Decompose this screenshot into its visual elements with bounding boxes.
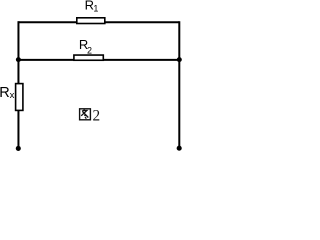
resistor Rx — [16, 84, 23, 111]
node terminal bottom-right — [177, 146, 182, 151]
wire top-left horizontal segment — [18, 21, 76, 23]
caption figure glyph 图 — [80, 109, 91, 120]
svg-text:R: R — [0, 85, 10, 101]
svg-text:2: 2 — [87, 45, 92, 55]
resistor R1 — [77, 18, 105, 24]
wire right vertical segment — [178, 21, 180, 148]
svg-text:2: 2 — [93, 108, 101, 125]
wire R2 branch left segment — [18, 59, 73, 61]
wire left vertical lower segment — [17, 110, 19, 148]
wire R2 branch right segment — [103, 59, 179, 61]
wire left vertical upper segment — [17, 21, 19, 83]
node junction left (R2 tap) — [16, 57, 21, 62]
wire top-right horizontal segment — [105, 21, 180, 23]
resistor R2 — [74, 55, 103, 60]
svg-text:1: 1 — [93, 4, 98, 14]
svg-text:x: x — [10, 90, 15, 101]
node terminal bottom-left — [16, 146, 21, 151]
node junction right (R2 tap) — [177, 57, 182, 62]
